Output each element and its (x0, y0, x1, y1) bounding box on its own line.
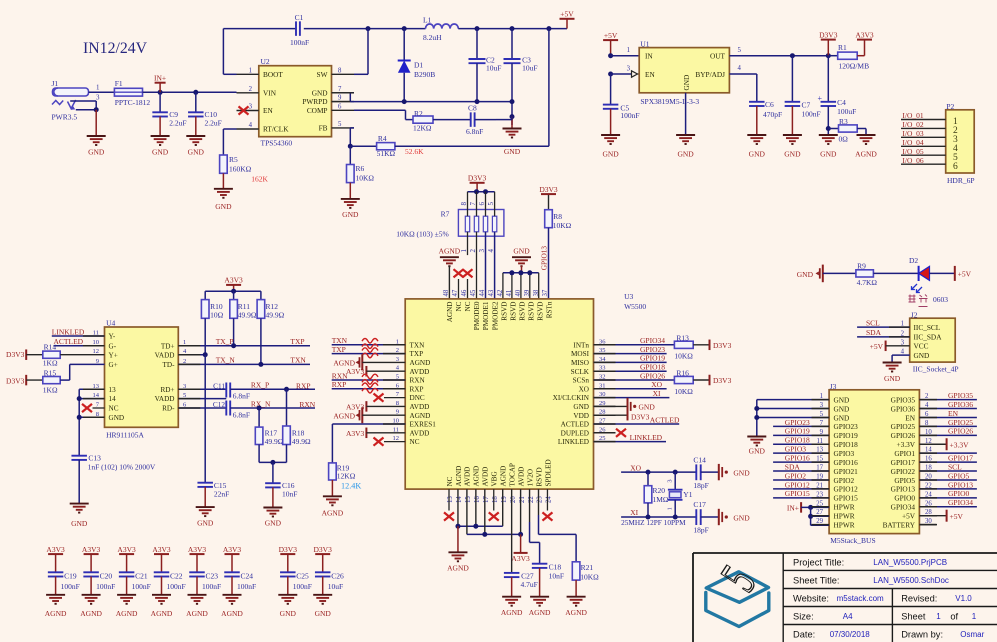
wire R11 to TD+ (233, 318, 235, 345)
svg-text:HPWR: HPWR (834, 503, 855, 512)
svg-text:GPIO5: GPIO5 (894, 476, 915, 485)
pin 9 (PWRPD) of U2 (302, 95, 354, 107)
pin 42 (RSVD) of U3 top (497, 289, 508, 321)
svg-text:RT/CLK: RT/CLK (263, 125, 289, 134)
svg-text:GND: GND (265, 519, 282, 528)
svg-text:M5Stack_BUS: M5Stack_BUS (830, 536, 875, 545)
svg-text:100nF: 100nF (237, 582, 256, 591)
resistor R4 51K (377, 134, 396, 158)
svg-text:C18: C18 (549, 563, 562, 572)
svg-text:AGND: AGND (116, 609, 138, 618)
pin 2 (GPIO35) of J3 right (891, 393, 929, 404)
pin 12 (Y+) of U4 left (93, 348, 118, 359)
svg-text:RD+: RD+ (160, 386, 174, 394)
capacitor C11 6.8nF in RX_P (178, 381, 315, 401)
svg-text:+: + (817, 94, 822, 103)
no-connect X U3 pin7 (374, 394, 384, 402)
wire net GPIO23 U3 pin35 (594, 345, 667, 354)
svg-text:RXN: RXN (410, 377, 426, 385)
pin 14 (14) of U4 left (93, 392, 117, 403)
svg-text:1KΩ: 1KΩ (43, 358, 58, 367)
wire FB to R4 (350, 145, 376, 147)
svg-text:GND: GND (749, 447, 766, 456)
pin 14 (AGND) of U3 bottom (455, 466, 463, 503)
svg-text:NC: NC (464, 301, 472, 311)
pin 28 (VDD) of U3 right (573, 409, 605, 420)
ground J3 (747, 437, 766, 456)
wire U2 BOOT to C1 rail (223, 29, 296, 75)
svg-text:OUT: OUT (710, 52, 726, 61)
node GND rail C2 (475, 99, 480, 104)
svg-text:I/O_01: I/O_01 (902, 111, 923, 120)
svg-text:LAN_W5500.PrjPCB: LAN_W5500.PrjPCB (873, 558, 947, 567)
pin 2 (IIC_SDA) of J2 (901, 330, 943, 341)
svg-text:VDD: VDD (573, 412, 589, 420)
svg-text:DNC: DNC (410, 394, 425, 402)
pin 3 (RD+) of U4 right (160, 383, 186, 394)
svg-text:7: 7 (469, 202, 477, 206)
pin 24 (GPIO0) of J3 right (894, 491, 932, 502)
pin 5 (RXN) of U3 left (396, 374, 426, 385)
pin 41 (RSVD) of U3 top (506, 290, 517, 321)
svg-text:GPIO1: GPIO1 (894, 449, 915, 458)
wire U3 pin47 stub (458, 279, 460, 299)
svg-text:HPWR: HPWR (834, 520, 855, 529)
svg-text:L1: L1 (423, 16, 432, 25)
svg-text:EN: EN (263, 106, 273, 115)
svg-text:49.9Ω: 49.9Ω (238, 310, 257, 319)
capacitor C12 6.8nF in RX_N (178, 399, 316, 419)
svg-text:SCLK: SCLK (571, 368, 590, 376)
svg-text:GPIO21: GPIO21 (834, 467, 859, 476)
pin 8 (GPIO25) of J3 right (891, 420, 929, 431)
svg-text:AGND: AGND (439, 247, 461, 256)
svg-text:C25: C25 (296, 572, 309, 581)
svg-text:100nF: 100nF (96, 582, 115, 591)
connector J1 PWR3.5 (52, 79, 89, 122)
pin 16 (GPIO17) of J3 right (891, 456, 933, 467)
svg-text:+5V: +5V (870, 342, 884, 351)
svg-text:160KΩ: 160KΩ (229, 165, 252, 174)
svg-text:GND: GND (315, 609, 332, 618)
ground AGND R21 (565, 597, 587, 617)
svg-text:24: 24 (546, 496, 553, 503)
power port A3V3 U3 pin11 (346, 428, 405, 439)
wire net GPIO23 to J3 pin 7 (773, 418, 829, 427)
pin 15 (AVDD) of U3 bottom (464, 467, 472, 503)
pin 11 (AVDD) of U3 left (393, 426, 430, 437)
capacitor C15 22nF (197, 481, 229, 507)
svg-text:6: 6 (478, 202, 486, 206)
svg-text:GPIO34: GPIO34 (640, 336, 665, 345)
svg-text:100uF: 100uF (837, 107, 856, 116)
svg-text:C7: C7 (802, 101, 811, 110)
svg-text:NC: NC (410, 438, 420, 446)
svg-text:RX_P: RX_P (251, 381, 269, 390)
svg-text:Revised:: Revised: (901, 594, 937, 604)
pin 33 (SCLK) of U3 right (571, 365, 606, 376)
svg-text:2: 2 (249, 86, 253, 93)
svg-text:BATTERY: BATTERY (883, 520, 916, 529)
pin 38 (RSVD) of U3 top (533, 289, 544, 321)
node C7 tap (790, 53, 795, 58)
svg-text:4.7KΩ: 4.7KΩ (857, 278, 878, 287)
svg-text:G+: G+ (109, 361, 118, 369)
svg-text:GPIO26: GPIO26 (640, 371, 665, 380)
ground AGND C27 (501, 597, 523, 617)
resistor R21 10K (RSVD) (539, 489, 600, 597)
pin 26 (DUPLED) of U3 right (561, 426, 607, 437)
svg-text:4.7uF: 4.7uF (521, 580, 538, 589)
svg-text:VCC: VCC (914, 342, 929, 351)
capacitor C4 100uF polarized (817, 56, 856, 135)
svg-text:GND: GND (342, 210, 359, 219)
svg-text:IN+: IN+ (787, 504, 799, 513)
ground J1 (87, 136, 106, 157)
svg-text:R1: R1 (838, 43, 847, 52)
svg-text:IIC_SDA: IIC_SDA (914, 333, 943, 342)
wire C8 to ground rail (475, 119, 496, 121)
pin 32 (SCSn) of U3 right (573, 374, 606, 385)
svg-text:P2: P2 (946, 102, 954, 111)
svg-text:C22: C22 (170, 572, 183, 581)
wire net LINKLED U3 pin25 (594, 433, 667, 442)
wire U2 RT/CLK to R5 (223, 129, 236, 155)
svg-text:GPIO3: GPIO3 (785, 445, 807, 454)
svg-text:I/O_05: I/O_05 (902, 147, 923, 156)
svg-text:Osmar: Osmar (960, 630, 984, 639)
resistor R11 49.9ohm (230, 300, 257, 320)
wire U3 pin7 stub (384, 397, 405, 399)
capacitor C5 100nF (603, 103, 640, 135)
svg-text:2: 2 (469, 249, 477, 253)
svg-text:GND: GND (602, 150, 619, 159)
svg-text:6: 6 (953, 162, 958, 172)
node C3 top (510, 26, 515, 31)
wire net XI row (621, 508, 696, 527)
wire J1 pins 2,3 to ground (70, 101, 99, 136)
wire A3V3 bias rail (205, 289, 261, 300)
capacitor C20 100nF decoupling (82, 545, 115, 595)
power port IN+ (154, 74, 166, 93)
svg-text:39: 39 (524, 289, 531, 296)
wire net XI U3 pin30 (594, 389, 670, 398)
ground port GND C17 (719, 509, 750, 525)
wire net SDA to J3 pin 17 (773, 462, 829, 471)
svg-text:AGND: AGND (45, 609, 67, 618)
transformer jack U4 HR911105A (105, 318, 179, 439)
wire net XO U3 pin31 (594, 380, 667, 389)
svg-text:AGND: AGND (322, 509, 344, 518)
svg-text:GND: GND (312, 88, 328, 97)
svg-text:+5V: +5V (958, 270, 972, 279)
wire R2 to C8 (433, 119, 471, 121)
wire net TXP to U3 pin2 (332, 345, 406, 358)
svg-text:GND: GND (88, 148, 105, 157)
pin 22 (GPIO13) of J3 right (891, 482, 933, 493)
svg-text:14: 14 (456, 496, 463, 503)
svg-text:1: 1 (460, 249, 468, 253)
wire net GPIO16 to J3 pin 15 (773, 454, 829, 463)
svg-text:13: 13 (447, 496, 454, 503)
svg-text:4: 4 (249, 122, 253, 129)
svg-text:A3V3: A3V3 (346, 367, 365, 376)
svg-text:3: 3 (667, 479, 674, 482)
power port D3V3 (R8) (539, 185, 558, 210)
svg-text:12KΩ: 12KΩ (413, 123, 432, 132)
svg-text:V1.0: V1.0 (955, 594, 972, 603)
svg-text:10uF: 10uF (486, 64, 501, 73)
ground port GND C14 (719, 464, 750, 480)
no-connect X U3 pin46 (463, 269, 473, 277)
regulator U2 TPS54360 (259, 57, 332, 148)
svg-text:RD-: RD- (162, 405, 175, 413)
capacitor C22 100nF decoupling (152, 545, 185, 595)
svg-text:47: 47 (452, 289, 459, 296)
svg-text:U3: U3 (624, 292, 633, 301)
pin 12 (+3.3V) of J3 right (896, 438, 932, 449)
ground AGND C18 (529, 597, 551, 617)
svg-text:D3V3: D3V3 (6, 350, 25, 359)
capacitor C16 10nF (265, 481, 297, 507)
svg-text:AGND: AGND (333, 412, 355, 421)
svg-text:49.9Ω: 49.9Ω (292, 437, 311, 446)
svg-text:D3V3: D3V3 (819, 30, 838, 39)
svg-text:A3V3: A3V3 (82, 545, 101, 554)
pin 14 (GPIO1) of J3 right (894, 447, 932, 458)
no-connect X U3 pin18 (489, 512, 499, 520)
ethernet controller U3 W5500 (405, 292, 646, 489)
svg-text:1: 1 (249, 67, 252, 74)
wire R12 to TD- (260, 318, 262, 364)
svg-text:ACTLED: ACTLED (561, 421, 589, 429)
resistor R10 10ohm (201, 300, 223, 320)
wire net TXN to U3 pin1 (332, 336, 406, 348)
svg-text:48: 48 (443, 289, 450, 296)
wire U1 GND pin to ground (685, 93, 687, 135)
ground C7 (783, 135, 802, 159)
svg-text:GPIO2: GPIO2 (785, 471, 807, 480)
power port +3.3V to J3 pin12 (919, 438, 969, 450)
capacitor C17 18pF (693, 500, 718, 534)
svg-text:A3V3: A3V3 (511, 554, 530, 563)
ground AGND C21 (116, 595, 138, 618)
svg-text:D2: D2 (909, 256, 918, 265)
wire U4 VADD pin5 (178, 398, 226, 400)
pin 3 of P2 with net I/O_03 (901, 129, 958, 145)
power port +5V (U1 input) (603, 31, 618, 56)
pin 6 (RD-) of U4 right (162, 402, 187, 413)
svg-text:R13: R13 (676, 334, 689, 343)
wire R7 pin1 stub (467, 232, 469, 255)
svg-text:GND: GND (188, 148, 205, 157)
svg-text:10nF: 10nF (282, 489, 297, 498)
svg-text:GPIO15: GPIO15 (785, 489, 810, 498)
pin 4 (VADD) of U4 right (155, 348, 187, 359)
wire net RXP to U3 pin6 (332, 380, 406, 393)
svg-text:IN12/24V: IN12/24V (83, 40, 148, 57)
svg-text:120Ω/MB: 120Ω/MB (839, 61, 870, 70)
svg-text:GPIO18: GPIO18 (640, 363, 665, 372)
pin 1 of P2 with net I/O_01 (901, 111, 958, 127)
wire +5V to U1 IN (611, 55, 640, 57)
svg-text:37: 37 (542, 289, 549, 296)
svg-text:XI/CLCKIN: XI/CLCKIN (553, 394, 590, 402)
svg-text:PPTC-1812: PPTC-1812 (115, 98, 151, 107)
svg-text:C8: C8 (468, 104, 477, 113)
svg-text:AGND: AGND (855, 150, 877, 159)
svg-text:R16: R16 (676, 369, 689, 378)
pin 13 (13) of U4 left (93, 383, 117, 394)
svg-text:AVDD: AVDD (464, 467, 472, 487)
svg-text:GPIO17: GPIO17 (891, 458, 916, 467)
svg-text:GPIO26: GPIO26 (891, 431, 916, 440)
wire U3 EXRES1 to R19 (332, 424, 405, 463)
svg-text:C20: C20 (100, 572, 113, 581)
svg-text:44: 44 (479, 289, 486, 296)
pin 7 (GND) of U2 (312, 86, 354, 98)
ground R5 (214, 189, 233, 211)
no-connect X U3 pin13 (444, 512, 454, 520)
pin 1 (GND) of J3 left (820, 393, 850, 404)
wire net SDA to J2 (857, 328, 910, 337)
svg-text:10KΩ (103) ±5%: 10KΩ (103) ±5% (396, 230, 449, 239)
svg-text:07/30/2018: 07/30/2018 (830, 630, 871, 639)
svg-text:22nF: 22nF (214, 489, 229, 498)
wire J3 GND pins 1,3,5 bus (754, 400, 829, 437)
pin 20 (TOCAP) of U3 bottom (508, 463, 516, 503)
svg-text:ACTLED: ACTLED (650, 415, 680, 424)
inductor L1 8.2uH (423, 16, 458, 43)
svg-text:10uF: 10uF (328, 582, 343, 591)
wire U2 COMP to R2 (354, 110, 413, 119)
power port A3V3 U3 pin8 (346, 401, 405, 412)
ground C15 (196, 507, 215, 527)
svg-text:AGND: AGND (500, 466, 508, 487)
wire C1 to SW node (304, 28, 368, 30)
ground rail symbol (503, 117, 522, 157)
ground C10 (186, 136, 205, 157)
svg-text:10KΩ: 10KΩ (356, 174, 375, 183)
title block texts (793, 558, 985, 640)
wire net SCL to J2 (857, 318, 910, 327)
svg-text:10KΩ: 10KΩ (580, 573, 599, 582)
svg-text:R8: R8 (553, 212, 562, 221)
wire net ACTLED U3 pin27 (594, 415, 680, 424)
pin 7 (GPIO23) of J3 left (820, 420, 859, 431)
svg-text:IN: IN (645, 52, 653, 61)
svg-text:GPIO5: GPIO5 (948, 471, 970, 480)
svg-text:GPIO0: GPIO0 (894, 494, 915, 503)
wire U2 GND/PWRPD to ground rail (332, 93, 513, 102)
node FB divider (348, 144, 353, 149)
pin 26 (GPIO34) of J3 right (891, 500, 933, 511)
svg-text:D3V3: D3V3 (468, 174, 487, 183)
no-connect X U3 pin24 (542, 512, 552, 520)
svg-text:VADD: VADD (155, 351, 175, 359)
svg-text:GPIO13: GPIO13 (540, 246, 549, 271)
svg-text:Project Title:: Project Title: (793, 558, 844, 568)
ground AGND U3 bottom (447, 552, 469, 572)
svg-text:PWRPD: PWRPD (302, 97, 327, 106)
svg-text:AGND: AGND (529, 608, 551, 617)
node IN+ junction (158, 90, 163, 95)
capacitor C2 10uF (469, 29, 502, 102)
pin 3 (VCC) of J2 (901, 339, 929, 350)
svg-text:R9: R9 (857, 262, 866, 271)
ground AGND C24 (221, 595, 243, 618)
ground C9 (151, 136, 170, 157)
ground R6 (341, 199, 360, 219)
svg-text:6.8nF: 6.8nF (233, 392, 250, 401)
svg-text:C1: C1 (295, 13, 304, 22)
wire net GPIO26 / resistor R16 pull-up (594, 369, 732, 396)
wire net LINKLED to U4 pin11 (52, 327, 105, 336)
svg-text:6.8nF: 6.8nF (466, 127, 483, 136)
svg-text:6: 6 (338, 103, 342, 110)
wire R9 to D2 (873, 272, 918, 274)
svg-text:BOOT: BOOT (263, 70, 283, 79)
svg-text:1: 1 (667, 507, 674, 510)
svg-text:GPIO19: GPIO19 (785, 427, 810, 436)
svg-text:GPIO23: GPIO23 (640, 345, 665, 354)
svg-text:TX_P: TX_P (216, 337, 234, 346)
node R7 bus a (474, 189, 479, 194)
ground AGND C23 (186, 595, 208, 618)
pin 2 (VIN) of U2 (237, 86, 277, 98)
svg-text:R15: R15 (44, 368, 57, 377)
wire AGND bus U3 pins 14,16,19 (455, 489, 502, 552)
pin 6 (EN) of J3 right (905, 411, 929, 422)
svg-text:GPIO35: GPIO35 (891, 395, 916, 404)
wire U3 pin18 stub (493, 489, 495, 510)
svg-text:18pF: 18pF (693, 481, 708, 490)
node C10 junction (193, 90, 198, 95)
pin 18 (GPIO22) of J3 right (891, 465, 933, 476)
title block table (693, 553, 997, 642)
svg-text:A4: A4 (843, 612, 853, 621)
svg-text:1nF (102) 10% 2000V: 1nF (102) 10% 2000V (88, 462, 156, 471)
ground port GND (LED return) (797, 265, 823, 283)
wire net GPIO35 to J3 pin 2 (919, 391, 977, 400)
pin 7 (NC) of U4 left (96, 402, 119, 413)
capacitor C21 100nF decoupling (117, 545, 150, 595)
svg-text:10KΩ: 10KΩ (674, 352, 693, 361)
wire net GPIO15 to J3 pin 23 (773, 489, 829, 498)
svg-text:SCL: SCL (948, 462, 962, 471)
wire net GPIO25 to J3 pin 8 (919, 418, 977, 427)
svg-text:AGND: AGND (186, 609, 208, 618)
svg-text:45: 45 (470, 289, 477, 296)
svg-text:8: 8 (460, 202, 468, 206)
pin 30 (BATTERY) of J3 right (883, 518, 933, 529)
capacitor C7 100nF (785, 56, 821, 135)
svg-text:AGND: AGND (151, 609, 173, 618)
svg-text:42: 42 (497, 289, 504, 296)
svg-text:of: of (950, 612, 958, 622)
svg-text:18pF: 18pF (693, 525, 708, 534)
pin 23 (RSVD) of U3 bottom (535, 467, 543, 503)
svg-text:25MHZ 12PF 10PPM: 25MHZ 12PF 10PPM (621, 518, 686, 527)
wire J3 HPWR bus pins 25,27,29 (808, 505, 829, 525)
svg-text:10Ω: 10Ω (210, 310, 224, 319)
pin 27 (HPWR) of J3 left (816, 509, 855, 520)
svg-text:R7: R7 (441, 209, 450, 218)
svg-text:RXP: RXP (296, 382, 311, 391)
svg-text:RXN: RXN (299, 400, 315, 409)
capacitor C13 1nF 2000V (71, 454, 155, 504)
svg-text:12KΩ: 12KΩ (337, 471, 356, 480)
